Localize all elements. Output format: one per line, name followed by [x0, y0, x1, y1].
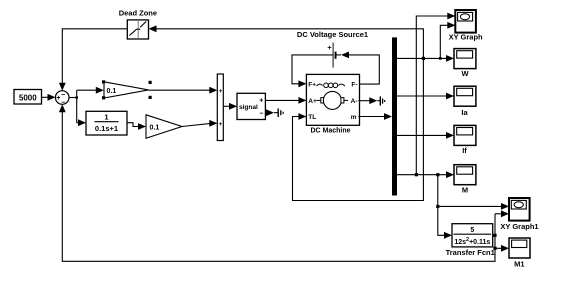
junction dot on W line for speed feedback net [422, 57, 425, 60]
svg-text:W: W [461, 69, 469, 78]
wire signal - to ground G-nd1 [265, 109, 277, 116]
adder bar block [217, 74, 223, 141]
svg-text:If: If [462, 146, 467, 155]
wire machine F- up to battery - [337, 52, 380, 85]
svg-text:Transfer Fcn1: Transfer Fcn1 [446, 248, 495, 257]
wire If output to scope If [397, 132, 454, 139]
transfer fcn TF2 5/(12s^2+0.11s) [452, 224, 493, 247]
wire speed feedback around bottom to machine TL input [293, 58, 424, 200]
svg-text:Ia: Ia [461, 108, 468, 117]
svg-text:0.1: 0.1 [150, 125, 160, 132]
svg-text:M1: M1 [514, 259, 524, 268]
transfer fcn TF1 1/(0.1s+1) [86, 111, 127, 135]
scope If [454, 125, 476, 145]
svg-text:DC Machine: DC Machine [310, 128, 350, 135]
wire TF2 output to scope M1 [493, 245, 509, 252]
junction dot W line to XY Graph second input [439, 57, 442, 60]
svg-text:m: m [351, 114, 357, 121]
wire M branch down to Transfer Fcn1 input [438, 175, 452, 239]
wire machine m to demux [358, 113, 392, 120]
DC Machine block [306, 74, 359, 125]
wire battery + down to machine F+ [292, 55, 333, 87]
wire M output to scope M [397, 171, 454, 178]
junction dot for XY Graph1 first input [436, 205, 439, 208]
svg-text:XY Graph1: XY Graph1 [500, 222, 538, 231]
svg-text:5000: 5000 [19, 94, 37, 103]
armature symbol inside DC Machine [317, 91, 349, 109]
svg-text:A-: A- [351, 98, 358, 105]
scope XY Graph [455, 10, 476, 33]
svg-text:−: − [61, 100, 65, 107]
wire to transfer fcn TF1 [77, 119, 86, 126]
wire dead-zone output to sum top input [59, 29, 127, 91]
selection handles of gain G1 [102, 80, 152, 99]
controlled voltage source block signal [237, 93, 265, 119]
wire gain G2 to adder [182, 120, 217, 127]
scope W [454, 49, 476, 69]
wire Ia output to scope Ia [397, 93, 454, 100]
wire W signal up to XY Graph second input [440, 22, 455, 59]
svg-text:+: + [219, 88, 223, 95]
wire TF2 output to XY Graph1 second input [495, 210, 509, 217]
scope M [454, 165, 476, 185]
svg-text:5: 5 [470, 227, 474, 234]
scope XY Graph1 [509, 198, 530, 221]
svg-text:signal: signal [239, 104, 258, 111]
wire 5000 to sum [42, 94, 56, 101]
wire M signal up to XY Graph first input [416, 13, 455, 175]
svg-text:F+: F+ [308, 81, 316, 88]
wire signal + to machine A+ [265, 97, 306, 104]
wire feedback to sum bottom input [59, 104, 495, 261]
battery DC Voltage Source1 [327, 43, 336, 68]
svg-text:DC Voltage Source1: DC Voltage Source1 [297, 30, 368, 39]
wire to gain G1 [77, 87, 104, 94]
scope M1 [509, 238, 530, 258]
sum junction S1 [55, 91, 69, 107]
junction dot M line to Transfer Fcn1 branch [436, 173, 439, 176]
wire M branch to XY Graph1 first input [438, 203, 509, 210]
gain G1 0.1 (selected) [104, 82, 149, 98]
junction dot M line to XY Graph [415, 173, 418, 176]
svg-text:0.1s+1: 0.1s+1 [95, 124, 118, 133]
constant block 5000 [14, 90, 42, 105]
svg-text:TL: TL [308, 114, 316, 121]
svg-text:XY Graph: XY Graph [449, 33, 483, 42]
wire adder to signal source [223, 103, 237, 110]
field winding coil inside DC Machine [317, 83, 346, 88]
gain G2 0.1 [146, 115, 182, 139]
demux bar [392, 37, 397, 195]
svg-text:F-: F- [351, 81, 357, 88]
ground symbol 2 [380, 96, 384, 105]
svg-text:M: M [462, 185, 468, 194]
svg-text:Dead Zone: Dead Zone [119, 9, 157, 18]
svg-text:12s2+0.11s: 12s2+0.11s [454, 237, 490, 246]
ground symbol 1 [278, 109, 283, 118]
svg-text:1: 1 [104, 113, 108, 122]
wire sum output with branch junction [69, 90, 78, 123]
svg-text:+: + [56, 95, 60, 102]
dead zone block DZ [127, 20, 148, 39]
svg-text:+: + [327, 45, 331, 52]
svg-text:0.1: 0.1 [107, 88, 117, 95]
svg-text:−: − [61, 92, 65, 99]
svg-text:+: + [219, 121, 223, 128]
wire TF1 to gain G2 [127, 123, 146, 130]
wire W output to scope W [397, 55, 454, 62]
svg-text:A+: A+ [308, 98, 317, 105]
scope Ia [454, 86, 476, 106]
wire speed feedback to Dead Zone input [149, 25, 424, 58]
wire TF2 output junction [493, 214, 497, 237]
wire machine A- to ground Gnd2 [358, 97, 380, 104]
wire gain G1 to adder [149, 87, 218, 94]
svg-text:−: − [259, 110, 263, 117]
svg-text:+: + [259, 98, 263, 105]
